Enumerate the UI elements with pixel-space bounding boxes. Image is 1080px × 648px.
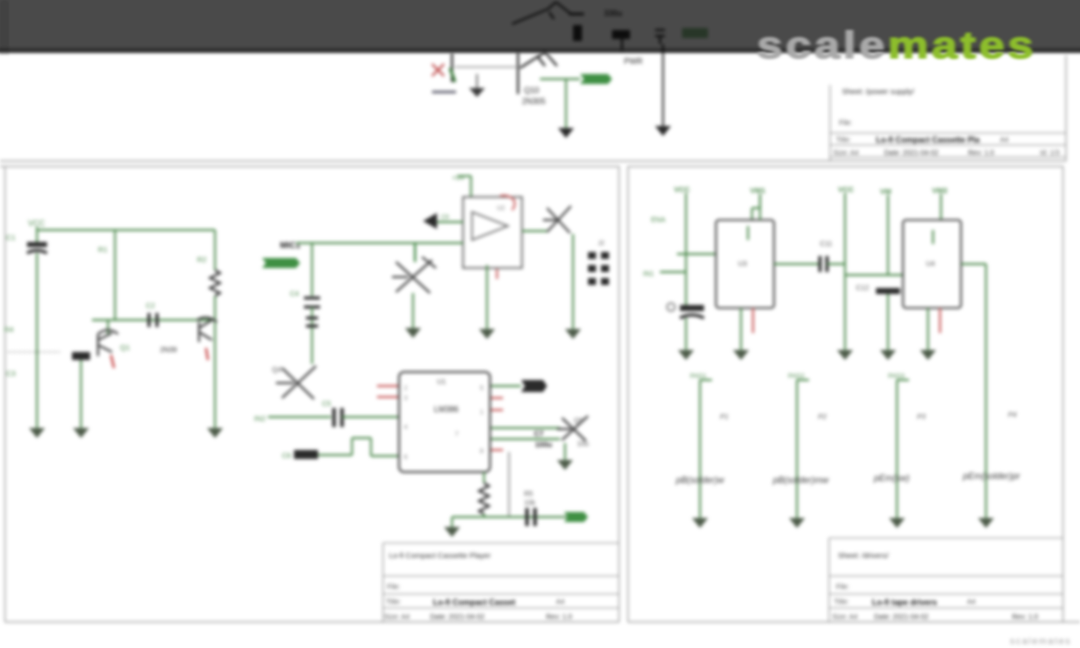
wire U2 to ground [486,265,488,329]
wire branch R1 [114,230,116,320]
transistor Q1 [98,320,130,356]
wire U4 gnd [927,308,929,350]
wire U1 gain [491,438,560,440]
svg-text:Sheet: /drivers/: Sheet: /drivers/ [838,551,889,560]
svg-text:U2: U2 [497,206,505,212]
svg-text:Rev: 1.0: Rev: 1.0 [546,614,572,621]
svg-text:IN2: IN2 [254,414,266,423]
svg-text:VM: VM [880,187,891,196]
wire mid rail [845,274,903,276]
power flag VCC2 [674,185,690,307]
frame left-sheet right border [618,166,620,622]
wire U2 output [522,230,547,232]
svg-text:Title:: Title: [834,599,849,606]
wire node VIN [621,39,623,50]
frame right-sheet right border [1062,166,1064,622]
svg-text:A4: A4 [967,599,976,606]
ground G9 [978,518,994,528]
title block frame [383,543,619,622]
wire mic to gate [296,242,463,244]
net label +5V (green arrow) [580,74,612,84]
frame right-sheet left border [627,166,629,622]
power flag VCC [28,219,45,242]
red pin mark Q1 [111,355,114,368]
svg-text:C6: C6 [282,453,291,460]
wire audio path [268,416,331,418]
svg-text:Date: 2021-04-02: Date: 2021-04-02 [430,614,485,621]
resistor R5 [479,472,489,517]
capacitor C21 [612,30,630,39]
svg-text:R2: R2 [197,255,207,264]
svg-text:C12: C12 [856,285,869,292]
power flag VM1 [750,186,765,220]
wire regulator output [540,78,580,80]
wire pin8 down [508,452,510,516]
svg-text:Sheet: /power supply/: Sheet: /power supply/ [842,87,915,96]
svg-text:Lo-fi Compact Cassette Player: Lo-fi Compact Cassette Player [389,551,491,560]
svg-text:Rev: 1.0: Rev: 1.0 [1012,614,1038,621]
resistor R2 [197,230,220,428]
wire mic branch down [311,244,313,296]
svg-text:pEm(sw): pEm(sw) [873,473,910,483]
svg-text:R4: R4 [4,325,14,334]
pad P2 flag [788,373,809,518]
ground GND3 [73,428,89,438]
transistor Q4 (JFET) [272,366,316,399]
svg-text:Size: A4: Size: A4 [832,614,858,621]
capacitor C1 (polarized) [6,233,47,253]
svg-text:Rev: 1.0: Rev: 1.0 [968,150,994,157]
junction circle [667,303,675,311]
ground G2 [733,350,749,360]
svg-text:Lo-fi tape drivers: Lo-fi tape drivers [872,598,937,607]
svg-text:100u: 100u [535,440,553,449]
ground G1 [678,350,694,360]
svg-text:U3: U3 [738,261,747,268]
svg-text:Q5: Q5 [574,418,583,425]
wire Q6 to ground [572,234,574,329]
svg-text:VCC: VCC [838,185,854,194]
capacitor C10 (polarized lens) [680,305,704,350]
svg-text:C4: C4 [290,291,299,298]
svg-text:C2: C2 [146,303,155,310]
capacitor C11 [820,241,832,272]
transistor Q2 [160,317,217,354]
ground GND1 [29,428,45,438]
svg-text:Lo-fi Compact Casset: Lo-fi Compact Casset [433,598,516,607]
power flag VM4 [932,186,947,220]
capacitor C22 [655,30,665,44]
svg-text:P1: P1 [720,414,729,421]
svg-text:VM1: VM1 [750,186,765,195]
svg-text:2N39: 2N39 [160,347,177,354]
ground GND5 [557,460,573,470]
wire Q3 source [412,293,414,328]
svg-text:PAD1: PAD1 [690,373,707,380]
red stub U4 [939,308,941,333]
IC U3 motor driver [716,220,774,308]
net label VREG flag [452,175,471,197]
svg-text:VCC: VCC [674,185,690,194]
svg-text:Date: 2021-04-02: Date: 2021-04-02 [884,150,939,157]
svg-text:Size: A4: Size: A4 [384,614,410,621]
wire U3 VM top [759,194,761,220]
svg-text:A4: A4 [556,599,565,606]
op-amp U1 (IC box) [399,372,490,472]
svg-text:Date: 2021-04-02: Date: 2021-04-02 [874,614,929,621]
red pin mark Q2 [206,348,208,360]
svg-text:Id: 1/3: Id: 1/3 [1040,150,1060,157]
frame top-sheet bottom border [0,160,1066,162]
wire U1 bypass [491,427,560,429]
svg-text:Title:: Title: [836,137,851,144]
wire J10 to right [455,66,518,68]
svg-text:C7: C7 [534,429,544,438]
svg-text:C3: C3 [6,369,16,378]
svg-text:Q1: Q1 [120,343,130,352]
capacitor C5 (polarized) [322,401,399,427]
wire U3 out [774,263,819,265]
scalemates logo [757,25,1037,68]
wire U3 gnd [740,308,742,350]
svg-text:U1: U1 [437,379,446,386]
ground GND4 [405,328,421,338]
svg-text:IN1: IN1 [643,271,654,278]
svg-text:PWR: PWR [624,57,643,66]
ground (J10) [469,74,485,97]
svg-text:P3: P3 [917,414,926,421]
ground G8 [889,518,905,528]
wire Q5 to ground [564,443,566,460]
svg-text:pB(solder)w: pB(solder)w [675,475,725,485]
wire base rail [92,319,213,321]
wire bend to ground [451,517,453,527]
transistor Q3 (JFET) [392,244,436,293]
ground GND2 [207,428,223,438]
svg-text:ENA: ENA [651,217,666,224]
svg-text:C5: C5 [322,401,331,408]
red pin mark U2 [500,196,515,211]
frame top-sheet right border [1065,55,1067,161]
svg-text:10u: 10u [577,441,589,448]
svg-text:Lo-fi Compact Cassette Pla: Lo-fi Compact Cassette Pla [876,136,980,145]
svg-text:Q10: Q10 [524,86,540,95]
svg-text:C11: C11 [820,241,832,248]
svg-text:J2: J2 [598,241,605,247]
svg-text:VM2: VM2 [932,186,947,195]
power flag VM2 [838,185,854,264]
wire leader dashed [8,351,60,353]
capacitor C4 [290,291,320,364]
svg-text:P2: P2 [818,414,827,421]
dark header bar [0,0,1080,53]
dark header bar left column [0,0,9,55]
red pin stubs U1 right [491,398,503,450]
pad P1 flag [690,373,712,518]
red pin stub U2 bottom [496,269,498,279]
ground GND6 [444,527,460,537]
red stub U3 [752,308,754,333]
svg-text:pEm(solder)pr: pEm(solder)pr [962,471,1021,481]
op-amp U2 [463,197,522,268]
title block frame [830,85,1066,161]
ground G5 [920,350,936,360]
svg-text:Size: A4: Size: A4 [833,150,859,157]
net label OUT (black) [521,380,547,392]
svg-text:P4: P4 [1008,412,1017,419]
net label arrow IN [262,258,300,268]
wire C11 to VM2 [827,263,845,265]
net label SPK (green) [564,512,588,522]
wire ENA to U3 [677,253,716,255]
frame bottom border [5,621,619,623]
transistor Q6 [543,206,571,233]
svg-text:File:: File: [839,120,852,127]
red pin stubs U1 left [377,386,398,397]
svg-text:C9: C9 [441,215,449,221]
svg-text:R1: R1 [98,245,108,254]
svg-text:MIC1: MIC1 [280,240,301,250]
svg-text:File:: File: [387,584,400,591]
ground (VIN) [655,126,671,136]
svg-text:Title:: Title: [386,599,401,606]
capacitor C2 [146,303,157,327]
svg-text:PAD3: PAD3 [888,373,905,380]
svg-text:A4: A4 [1000,137,1009,144]
transistor Q10 [518,52,557,94]
transistor Q5 [557,416,588,441]
svg-text:10k: 10k [524,500,536,507]
connector J10 [432,53,456,92]
wire VM2 down to ground [844,264,846,350]
title block frame [829,538,1063,622]
net label +9V (green, under bar) [682,28,708,38]
svg-text:Q4: Q4 [272,367,281,374]
wire long rail down [985,264,987,518]
svg-text:VCC: VCC [28,219,45,228]
ground GND-U2 [479,329,495,339]
capacitor C20 [569,14,584,41]
svg-text:LM386: LM386 [434,405,459,414]
ground (C20) [558,128,574,138]
capacitor C13 (lens) [876,288,900,350]
capacitor C8 (polarized) [527,508,535,526]
wire C1 to ground [36,253,38,428]
svg-text:R5: R5 [524,491,533,498]
frame bottom sheets top border [0,166,619,168]
svg-text:PAD2: PAD2 [788,373,805,380]
svg-text:scalemates: scalemates [1010,636,1072,646]
svg-text:pB(solder)mw: pB(solder)mw [772,475,829,485]
resistor R3 [72,352,90,428]
svg-text:U4: U4 [926,261,935,268]
IC U4 motor driver [903,220,961,308]
ground G6 [692,518,708,528]
ground GND-Q6 [565,329,581,339]
wire VIN down [662,44,664,126]
ground G3 [837,350,853,360]
connector J2 pin grid [588,252,609,285]
frame left-sheet left border [4,166,6,622]
pad P3 flag [888,373,909,518]
svg-text:C1: C1 [6,233,16,242]
svg-text:2N305: 2N305 [522,97,546,106]
wire to ground cap [565,79,567,128]
capacitor C9 [423,213,463,229]
diode D1 bridge roof [512,2,571,24]
wire output rail [452,516,586,518]
ground G4 [880,350,896,360]
wire IN-B stub [660,271,686,273]
wire U1 pin5 out [491,385,521,387]
wire VCC rail [37,229,215,231]
capacitor C6 [282,438,399,460]
power flag VM3 [880,187,891,275]
wire U4 out right [961,263,986,265]
svg-text:File:: File: [836,584,849,591]
ground G7 [789,518,805,528]
